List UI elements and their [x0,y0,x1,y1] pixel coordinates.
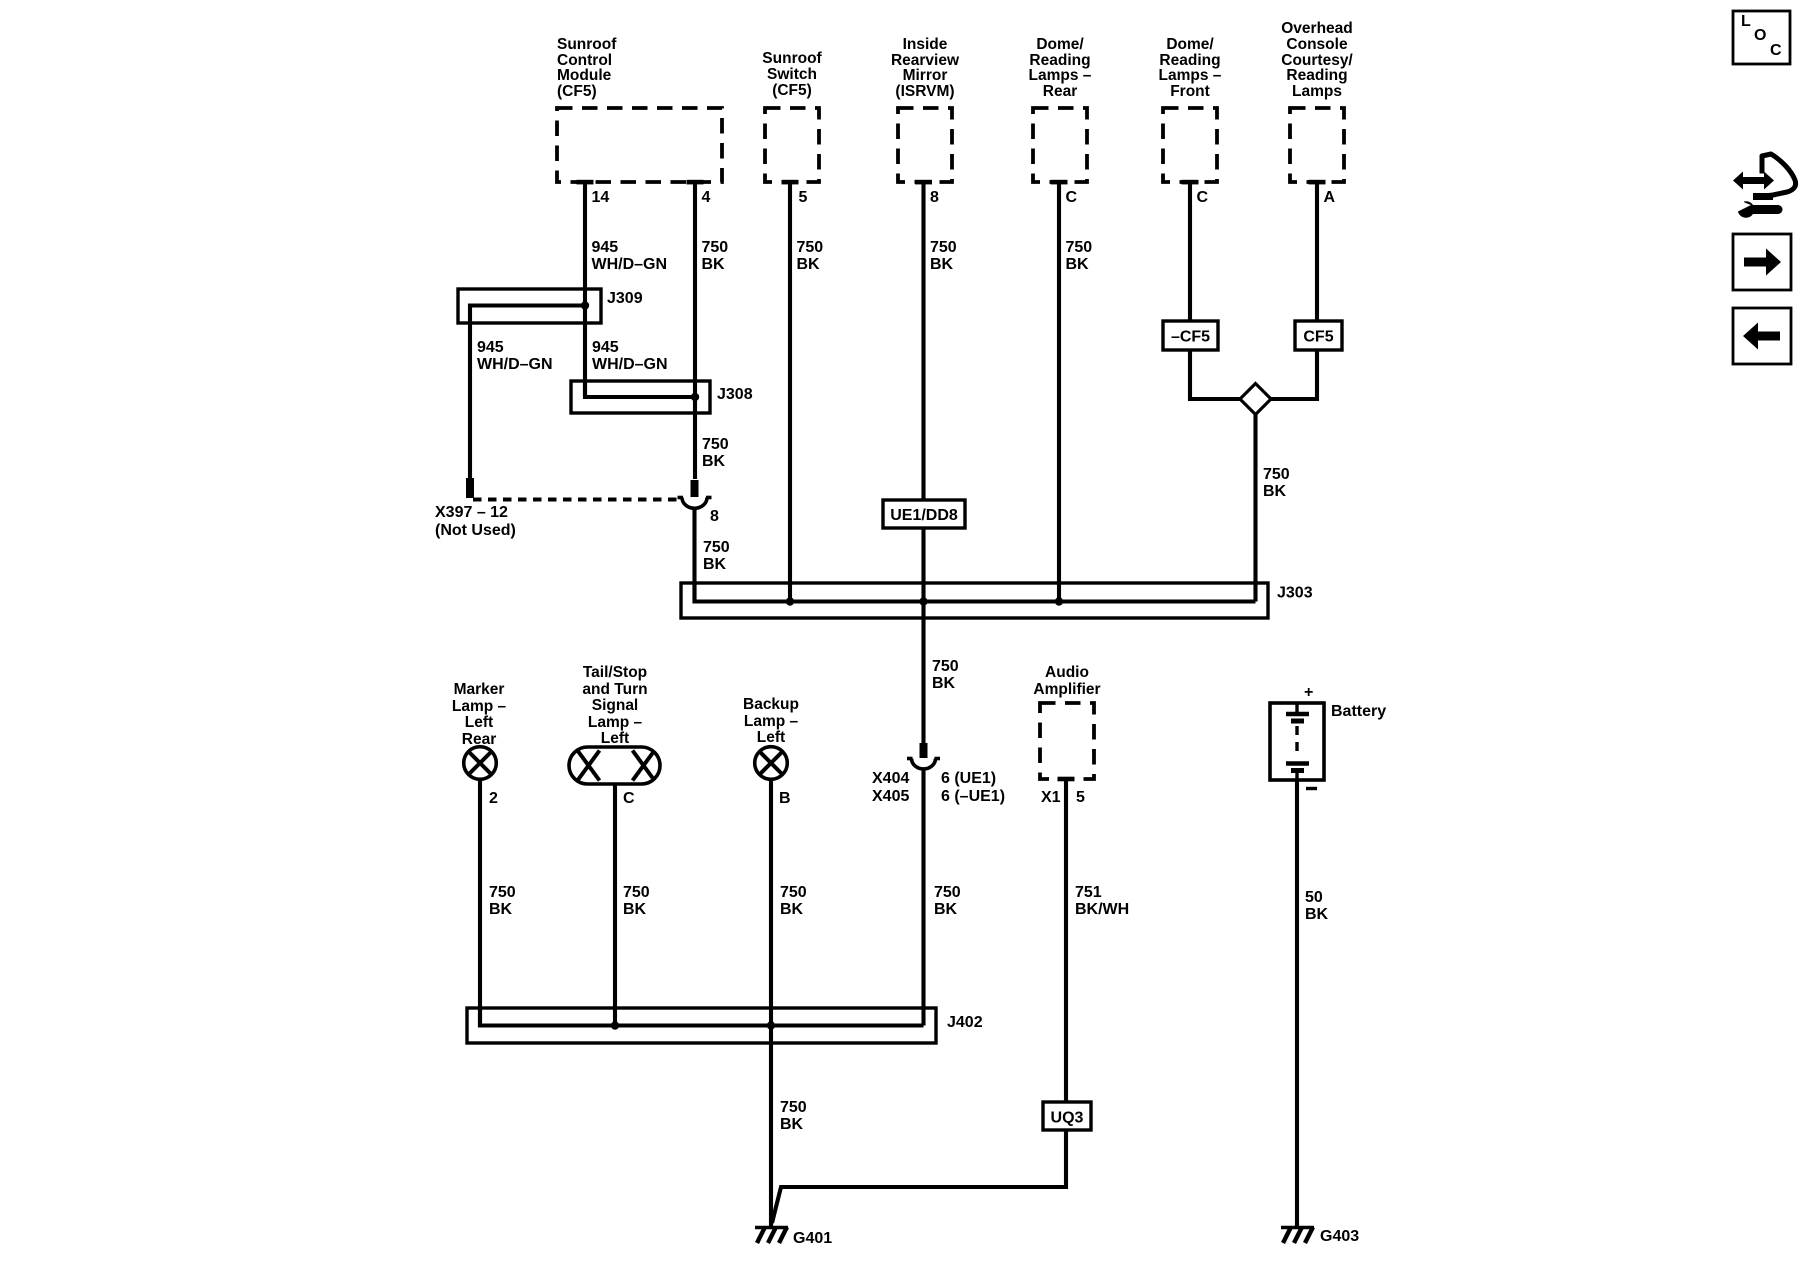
label Dome/Reading Lamps Rear [1029,36,1092,100]
svg-text:UE1/DD8: UE1/DD8 [890,507,958,524]
svg-text:J303: J303 [1277,585,1313,602]
svg-text:750: 750 [797,239,824,256]
component Overhead Console Courtesy/Reading Lamps dashed box [1290,108,1344,182]
svg-text:Dome/: Dome/ [1166,36,1214,53]
pin tab A [1309,180,1326,185]
label 750 BK diamond to J303 [1263,466,1290,500]
svg-text:Lamps –: Lamps – [1029,67,1092,84]
pin tab 8 [915,180,932,185]
label 6 (UE1) 6 (-UE1) [941,770,1005,805]
svg-text:J402: J402 [947,1014,983,1031]
pin tab X1-5 audio amplifier [1058,777,1075,782]
pin tab 4 [687,180,704,185]
svg-text:G403: G403 [1320,1228,1359,1245]
svg-text:750: 750 [780,1099,807,1116]
wire J402 inner splice line [480,1008,924,1026]
splice J308 junction dot [691,393,699,401]
svg-text:Dome/: Dome/ [1036,36,1084,53]
svg-text:6 (–UE1): 6 (–UE1) [941,788,1005,805]
wire 750 BK diamond down to J303 right end [1253,414,1257,602]
svg-text:B: B [779,790,791,807]
icon double arrow with outline arrow and wrench [1733,154,1796,218]
svg-text:Switch: Switch [767,66,817,83]
svg-text:8: 8 [930,189,939,206]
connector 8 female cup [678,498,712,509]
label 945 WH/D-GN left branch [477,339,553,373]
svg-text:751: 751 [1075,884,1102,901]
splice J309 inner line with junction dot [470,304,585,307]
svg-text:Lamp –: Lamp – [744,713,799,730]
svg-text:BK: BK [797,256,821,273]
svg-text:C: C [1066,189,1078,206]
svg-text:945: 945 [592,239,619,256]
splice pack J308 box [571,381,710,413]
wire -CF5 to diamond junction [1190,350,1240,399]
wire backup lamp 750 BK through J402 to G401 [769,780,773,1226]
wire J309 branch down to X397 [470,306,585,480]
label 50 BK battery [1305,889,1329,923]
label 750 BK below J303 [932,658,959,692]
lamp Backup Lamp Left [755,747,788,780]
wire pinA Overhead Console to CF5 [1315,182,1319,321]
svg-text:Inside: Inside [903,36,948,53]
label 750 BK pin5 [797,239,824,273]
svg-text:750: 750 [702,436,729,453]
label Marker Lamp Left Rear [452,681,507,748]
svg-text:8: 8 [710,508,719,525]
svg-text:Front: Front [1170,83,1210,100]
svg-text:750: 750 [932,658,959,675]
component Inside Rearview Mirror (ISRVM) dashed box [898,108,952,182]
wire marker lamp 750 BK to J402 [478,780,482,1026]
pin tab C rear [1051,180,1068,185]
label 750 BK pin4 [702,239,729,273]
label 750 BK pin8 [930,239,957,273]
wire 750 BK from connector 8 down into J303 [692,508,696,602]
svg-text:Marker: Marker [454,681,505,698]
pin tab C front [1182,180,1199,185]
svg-text:G401: G401 [793,1230,832,1247]
wire J308 splice inner line [585,381,695,397]
label Tail/Stop and Turn Signal Lamp Left [582,664,647,747]
component Dome/Reading Lamps Front dashed box [1163,108,1217,182]
connector 8 male nub [691,480,699,497]
wire pinC Dome/Reading Lamps Front to -CF5 [1188,182,1192,321]
component Dome/Reading Lamps Rear dashed box [1033,108,1087,182]
label Sunroof Control Module (CF5) [557,36,617,100]
svg-text:Lamp –: Lamp – [588,714,643,731]
component Sunroof Switch (CF5) dashed box [765,108,819,182]
svg-text:750: 750 [930,239,957,256]
svg-text:(Not Used): (Not Used) [435,522,516,539]
svg-text:A: A [1324,189,1336,206]
wire CF5 to diamond junction [1271,350,1317,399]
svg-text:C: C [1197,189,1209,206]
svg-text:O: O [1754,27,1766,44]
svg-text:Amplifier: Amplifier [1033,681,1100,698]
svg-text:BK: BK [934,901,958,918]
svg-text:Module: Module [557,67,612,84]
svg-text:(CF5): (CF5) [772,82,812,99]
svg-text:UQ3: UQ3 [1051,1110,1084,1127]
svg-text:+: + [1304,684,1313,701]
svg-text:J309: J309 [607,290,643,307]
icon LOC letters [1741,13,1782,59]
svg-text:Lamp –: Lamp – [452,698,507,715]
label 750 BK above J303 [703,539,730,573]
svg-text:X404: X404 [872,770,909,787]
svg-text:BK: BK [703,556,727,573]
wire J303 inner splice line [695,583,1256,602]
fuse box UE1/DD8 [883,500,965,528]
wire X397 dashed not-used [473,497,679,501]
svg-text:Signal: Signal [592,697,639,714]
label Sunroof Switch (CF5) [762,50,822,99]
icon LOC box top right [1733,11,1790,64]
diamond junction [1240,384,1271,415]
splice pack J303 bar [681,583,1268,618]
battery box [1270,703,1324,780]
wire pinC 750 BK Dome/Reading Lamps Rear to J303 [1057,182,1061,602]
label battery minus [1306,787,1317,790]
component Sunroof Control Module (CF5) dashed box [557,108,722,182]
svg-text:750: 750 [489,884,516,901]
svg-text:Sunroof: Sunroof [762,50,822,67]
svg-text:5: 5 [799,189,808,206]
label 750 BK tail [623,884,650,918]
splice J303 junction dots [786,597,794,605]
option box CF5 [1295,321,1342,350]
wire pin5 750 BK Sunroof Switch to J303 [788,182,792,602]
label 750 BK below J402 [780,1099,807,1133]
svg-text:Console: Console [1286,36,1348,53]
svg-text:Overhead: Overhead [1281,20,1353,37]
svg-text:C: C [1770,42,1782,59]
connector X404/X405 male nub [920,743,928,758]
svg-text:Lamps: Lamps [1292,83,1342,100]
wire battery 50 BK to G403 [1295,780,1299,1226]
option box -CF5 [1163,321,1218,350]
svg-text:750: 750 [702,239,729,256]
label 945 WH/D-GN pin14 [592,239,668,273]
svg-text:750: 750 [1263,466,1290,483]
wire audio amplifier 751 BK/WH through UQ3 to G401 [772,779,1066,1223]
label Backup Lamp Left [743,696,799,746]
svg-text:14: 14 [592,189,610,206]
svg-text:5: 5 [1076,789,1085,806]
svg-text:BK: BK [932,675,956,692]
svg-text:750: 750 [780,884,807,901]
svg-text:BK: BK [930,256,954,273]
splice pack J402 bar [467,1008,936,1043]
svg-text:6 (UE1): 6 (UE1) [941,770,996,787]
label 750 BK pinC rear [1066,239,1093,273]
svg-text:J308: J308 [717,386,753,403]
svg-text:WH/D–GN: WH/D–GN [592,256,668,273]
label Audio Amplifier [1033,664,1100,698]
svg-text:Battery: Battery [1331,703,1386,720]
svg-text:750: 750 [934,884,961,901]
connector X397-12 male nub [466,478,474,498]
svg-text:50: 50 [1305,889,1323,906]
svg-text:945: 945 [592,339,619,356]
splice J402 junction dots [611,1021,619,1029]
label 945 WH/D-GN right branch [592,339,668,373]
svg-text:Mirror: Mirror [903,67,948,84]
lamp Marker Lamp Left Rear [464,747,497,780]
wire 750 BK below X404/X405 into J402 [921,769,925,1026]
svg-text:BK: BK [489,901,513,918]
label Inside Rearview Mirror (ISRVM) [891,36,960,100]
svg-text:BK: BK [780,1116,804,1133]
ground G401 [755,1227,788,1243]
svg-text:945: 945 [477,339,504,356]
wire pin8 750 BK ISRVM through UE1/DD8 to J303 [921,182,925,618]
svg-text:Rear: Rear [1043,83,1077,100]
pin tab 5 [782,180,799,185]
svg-text:4: 4 [702,189,711,206]
wire pin14 945 WH/D-GN from Sunroof Control Module to J308 [583,182,587,397]
battery cell plates [1286,703,1309,780]
svg-text:BK/WH: BK/WH [1075,901,1129,918]
svg-text:(CF5): (CF5) [557,83,597,100]
svg-text:BK: BK [1066,256,1090,273]
svg-text:WH/D–GN: WH/D–GN [477,356,553,373]
svg-text:C: C [623,790,635,807]
svg-text:BK: BK [1305,906,1329,923]
svg-text:Backup: Backup [743,696,799,713]
wire pin4 750 BK from Sunroof Control Module through J308 to connector 8 [693,182,697,479]
svg-text:X405: X405 [872,788,909,805]
connector X404/X405 female cup [907,759,940,769]
svg-text:Left: Left [601,730,629,747]
svg-text:Tail/Stop: Tail/Stop [583,664,647,681]
fuse box UQ3 [1043,1102,1091,1130]
wire 750 BK J303 to connector X404/X405 [921,618,925,744]
label X404 X405 [872,770,909,805]
svg-text:BK: BK [780,901,804,918]
label 750 BK X404 wire [934,884,961,918]
ground G403 [1281,1227,1314,1243]
svg-text:2: 2 [489,790,498,807]
label 750 BK marker [489,884,516,918]
svg-text:CF5: CF5 [1303,329,1333,346]
label Dome/Reading Lamps Front [1159,36,1222,100]
icon left arrow box [1733,308,1791,364]
svg-text:Sunroof: Sunroof [557,36,617,53]
svg-text:Audio: Audio [1045,664,1089,681]
svg-text:BK: BK [1263,483,1287,500]
pin tab 14 [577,180,594,185]
svg-text:BK: BK [702,453,726,470]
svg-text:750: 750 [1066,239,1093,256]
svg-text:(ISRVM): (ISRVM) [895,83,954,100]
svg-text:WH/D–GN: WH/D–GN [592,356,668,373]
svg-text:L: L [1741,13,1751,30]
wire tail lamp 750 BK to J402 [613,784,617,1026]
label 751 BK/WH audio [1075,884,1129,918]
svg-text:Reading: Reading [1286,67,1347,84]
svg-text:BK: BK [702,256,726,273]
icon right arrow box [1733,234,1791,290]
label Overhead Console Courtesy/Reading Lamps [1281,20,1353,100]
svg-text:–CF5: –CF5 [1171,329,1210,346]
svg-text:750: 750 [703,539,730,556]
svg-text:Rear: Rear [462,731,496,748]
component Audio Amplifier dashed box [1040,703,1094,779]
label 750 BK below J308 [702,436,729,470]
svg-text:X1: X1 [1041,789,1061,806]
label 750 BK backup [780,884,807,918]
svg-text:BK: BK [623,901,647,918]
svg-text:and Turn: and Turn [582,681,647,698]
svg-text:750: 750 [623,884,650,901]
lamp Tail/Stop and Turn Signal Lamp Left [569,747,660,784]
splice pack J309 box [458,289,601,323]
label X397 - 12 (Not Used) [435,504,516,539]
svg-text:Left: Left [465,714,493,731]
svg-text:Left: Left [757,729,785,746]
svg-text:Lamps –: Lamps – [1159,67,1222,84]
svg-text:X397 – 12: X397 – 12 [435,504,508,521]
